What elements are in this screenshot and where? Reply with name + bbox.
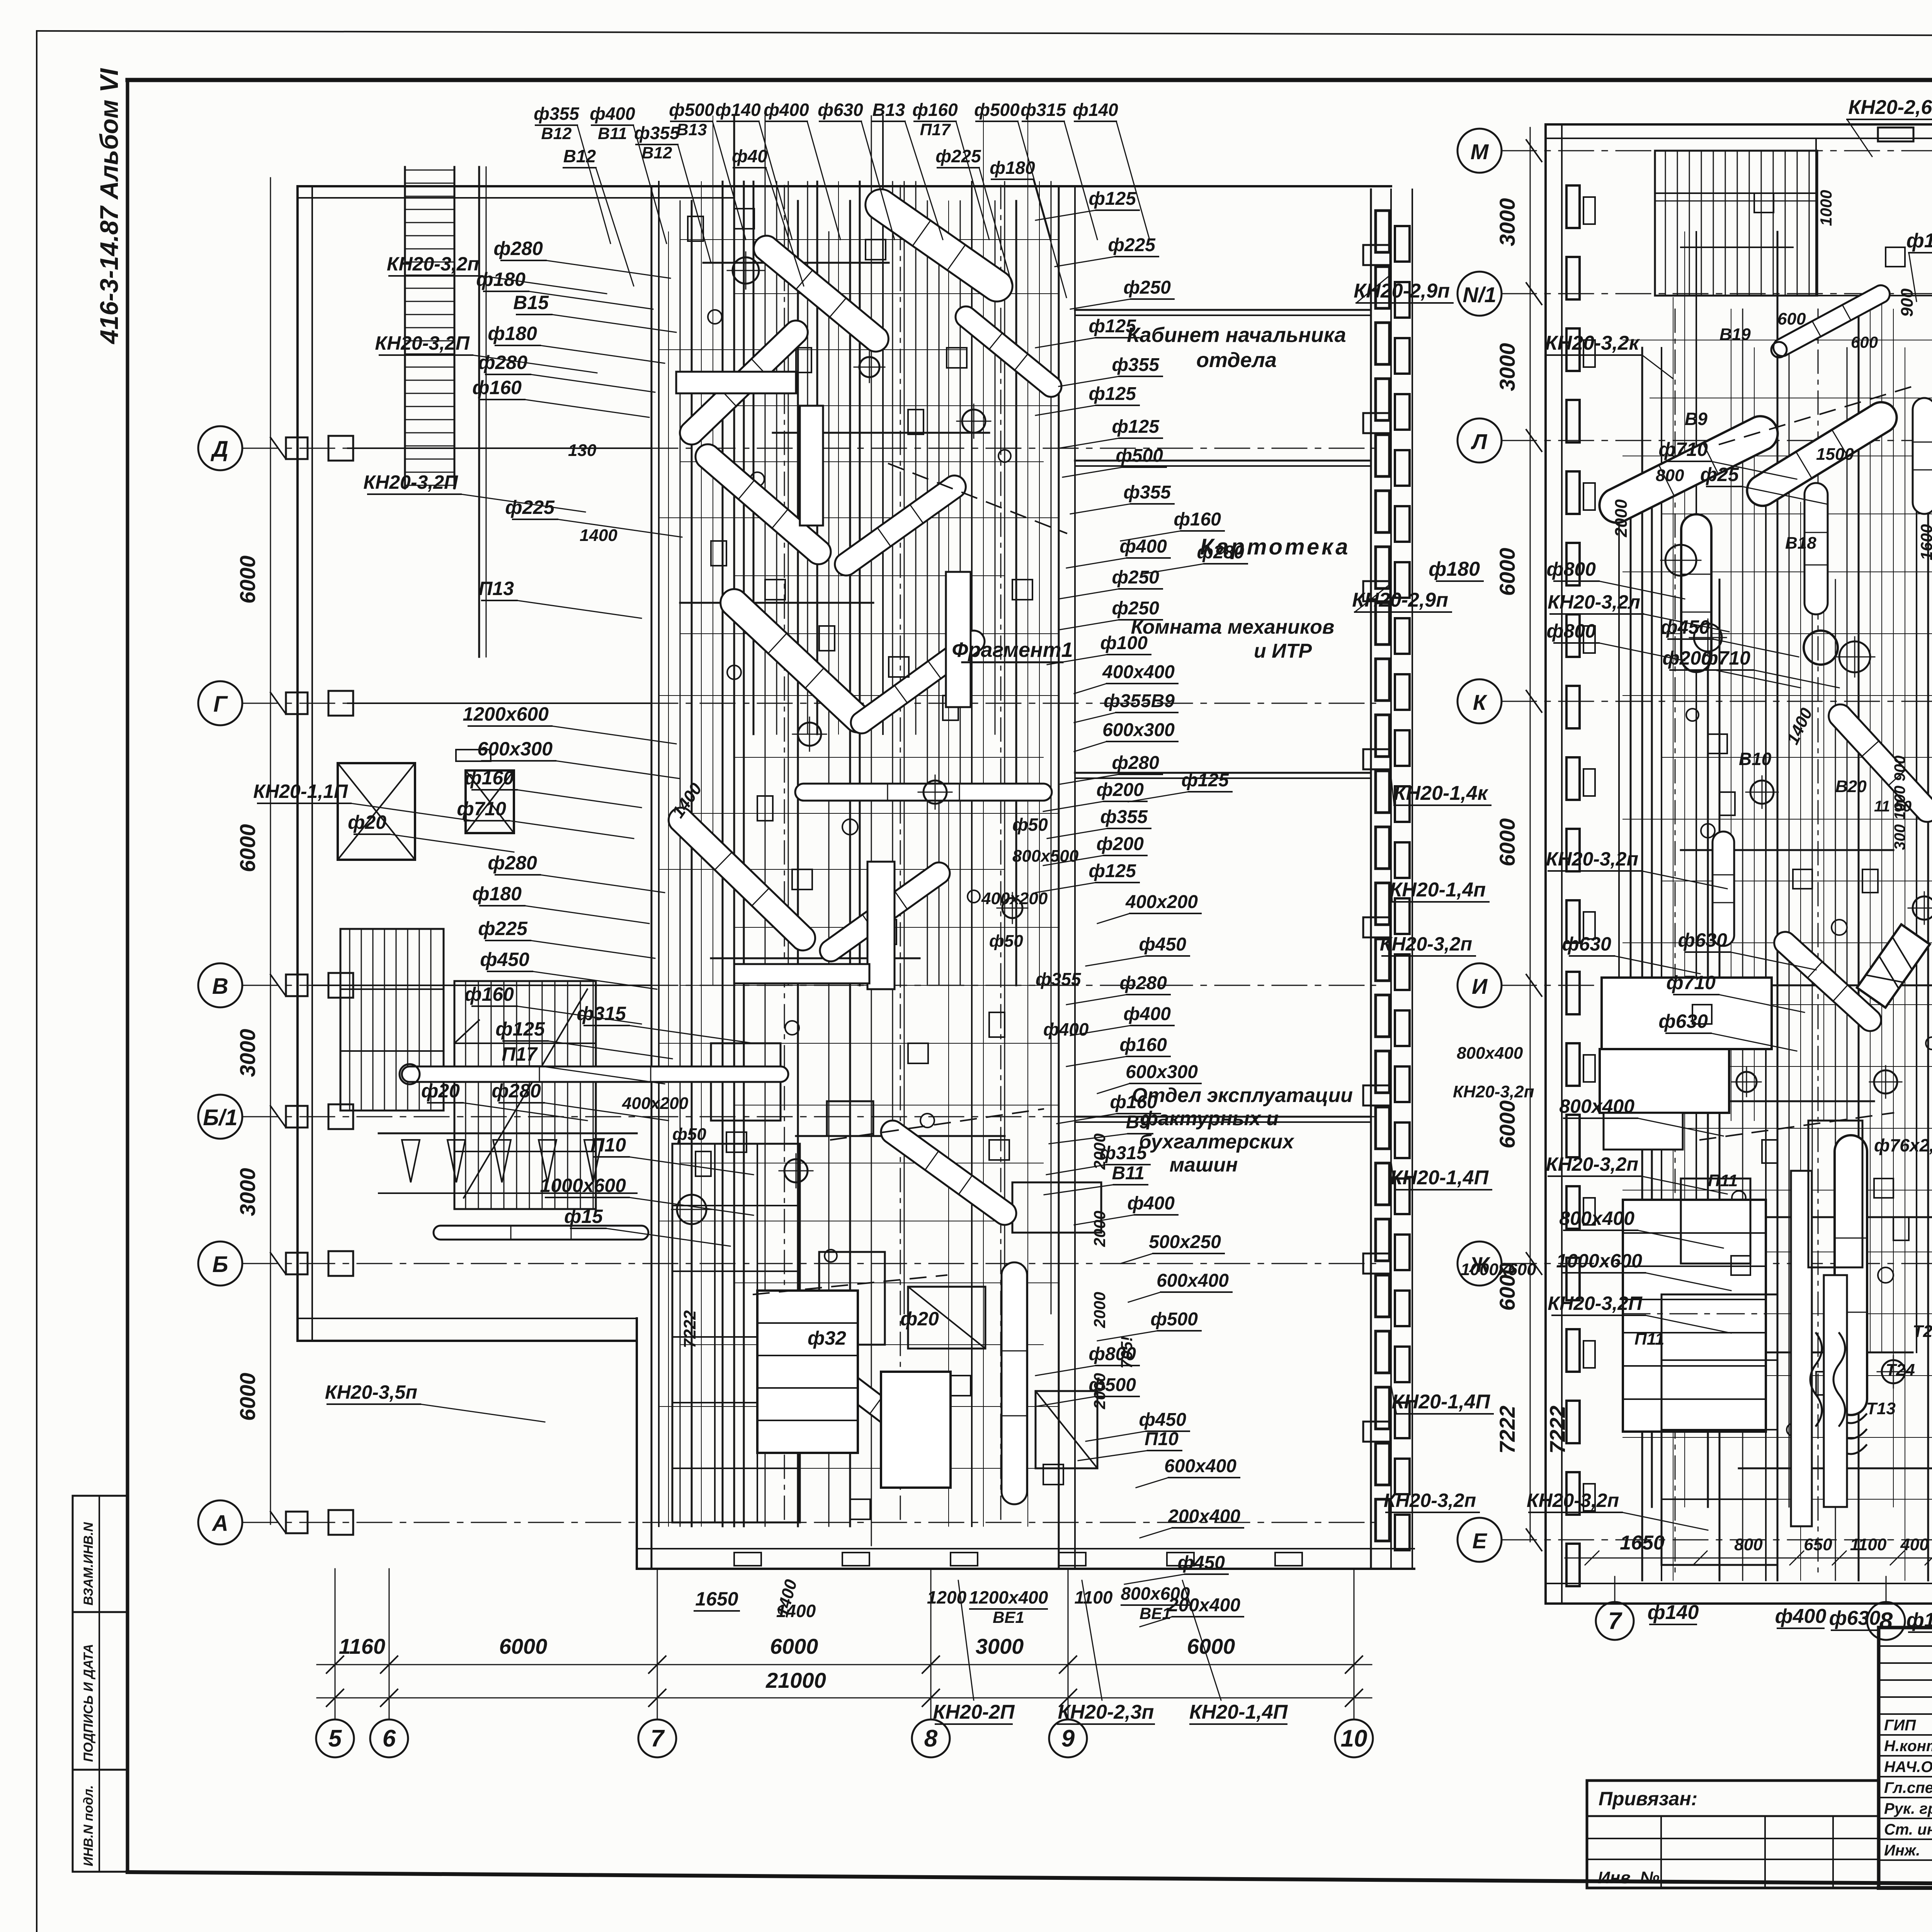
svg-text:КН20-3,2п: КН20-3,2п — [1453, 1082, 1534, 1101]
svg-text:В12: В12 — [541, 124, 572, 143]
svg-text:В13: В13 — [872, 100, 905, 120]
svg-text:КН20-1,4П: КН20-1,4П — [1189, 1701, 1288, 1723]
svg-text:ф630: ф630 — [1678, 929, 1727, 951]
svg-text:800: 800 — [1656, 466, 1684, 485]
svg-text:Б: Б — [212, 1252, 228, 1277]
svg-text:ф450: ф450 — [480, 949, 529, 970]
svg-text:В19: В19 — [1719, 325, 1751, 344]
svg-text:6: 6 — [383, 1725, 396, 1752]
svg-text:отдела: отдела — [1196, 349, 1277, 372]
svg-text:ф225: ф225 — [478, 918, 528, 939]
svg-text:В11: В11 — [1112, 1163, 1145, 1184]
svg-text:ф160: ф160 — [1119, 1035, 1167, 1055]
svg-text:800х400: 800х400 — [1457, 1044, 1523, 1063]
svg-text:КН20-1,4П: КН20-1,4П — [1392, 1391, 1491, 1413]
svg-text:ф225: ф225 — [505, 497, 555, 518]
svg-text:800: 800 — [1734, 1535, 1763, 1554]
svg-text:2000: 2000 — [1090, 1373, 1109, 1409]
svg-text:В10: В10 — [1739, 749, 1772, 769]
svg-text:ф400: ф400 — [1127, 1193, 1175, 1214]
svg-text:ф25: ф25 — [1700, 464, 1739, 485]
svg-text:ф40: ф40 — [732, 146, 767, 166]
svg-text:ф500: ф500 — [1150, 1309, 1198, 1330]
svg-text:21000: 21000 — [765, 1668, 826, 1692]
svg-text:В18: В18 — [1785, 534, 1816, 553]
svg-text:Н.контр.: Н.контр. — [1884, 1738, 1932, 1755]
svg-text:ф280: ф280 — [493, 238, 543, 259]
svg-text:ф20: ф20 — [900, 1308, 939, 1330]
svg-text:ф160: ф160 — [912, 100, 958, 120]
svg-text:2000: 2000 — [1090, 1292, 1109, 1328]
svg-text:ф710: ф710 — [457, 798, 506, 820]
svg-text:1160: 1160 — [339, 1634, 385, 1658]
svg-text:ф450: ф450 — [1660, 616, 1710, 638]
svg-text:ф315: ф315 — [577, 1003, 626, 1024]
svg-text:400х400: 400х400 — [1102, 662, 1175, 682]
svg-text:НАЧ.ОТД.: НАЧ.ОТД. — [1884, 1759, 1932, 1776]
svg-text:ф630: ф630 — [1829, 1607, 1881, 1629]
svg-text:ф280: ф280 — [1112, 753, 1159, 773]
svg-text:П10: П10 — [590, 1134, 626, 1156]
svg-text:А: А — [211, 1511, 228, 1536]
svg-text:6000: 6000 — [499, 1634, 548, 1658]
svg-text:ф400: ф400 — [1119, 536, 1167, 557]
svg-text:КН20-2П: КН20-2П — [933, 1701, 1015, 1723]
svg-text:ф225: ф225 — [935, 146, 981, 166]
svg-text:Фрагмент1: Фрагмент1 — [952, 638, 1073, 662]
svg-text:КН20-2,9п: КН20-2,9п — [1352, 589, 1448, 611]
svg-text:КН20-3,2п: КН20-3,2п — [1527, 1490, 1619, 1511]
svg-text:КН20-2,3п: КН20-2,3п — [1058, 1701, 1154, 1723]
svg-text:Инж.: Инж. — [1884, 1842, 1920, 1859]
svg-text:КН20-1,4к: КН20-1,4к — [1394, 782, 1489, 804]
svg-text:400х200: 400х200 — [622, 1094, 689, 1113]
svg-text:П17: П17 — [920, 121, 951, 139]
svg-text:Е: Е — [1472, 1529, 1487, 1553]
svg-text:900: 900 — [1898, 288, 1917, 317]
svg-text:Л: Л — [1471, 429, 1488, 454]
svg-text:Г: Г — [213, 692, 228, 717]
svg-text:400х200: 400х200 — [981, 889, 1048, 908]
svg-text:ПОДПИСЬ И ДАТА: ПОДПИСЬ И ДАТА — [81, 1644, 96, 1762]
svg-text:фактурных и: фактурных и — [1140, 1107, 1279, 1130]
svg-text:В20: В20 — [1835, 777, 1867, 796]
svg-text:ф125: ф125 — [1088, 384, 1136, 404]
svg-text:6000: 6000 — [1495, 818, 1519, 867]
svg-text:400: 400 — [1900, 1535, 1929, 1554]
svg-text:ф160: ф160 — [1906, 1609, 1932, 1631]
svg-text:1600: 1600 — [1917, 524, 1932, 560]
svg-text:ф500: ф500 — [1116, 446, 1163, 466]
svg-text:ф400: ф400 — [1123, 1004, 1171, 1024]
svg-text:ф200: ф200 — [1096, 834, 1144, 854]
svg-text:ф200: ф200 — [1096, 780, 1144, 800]
svg-text:8: 8 — [924, 1725, 938, 1752]
svg-text:600х400: 600х400 — [1164, 1456, 1236, 1476]
svg-text:ВЕ1: ВЕ1 — [993, 1608, 1024, 1626]
svg-text:2000: 2000 — [1090, 1211, 1109, 1247]
svg-text:3000: 3000 — [1495, 198, 1519, 247]
svg-text:ф125: ф125 — [1088, 189, 1136, 209]
svg-text:ф250: ф250 — [1112, 598, 1159, 619]
svg-text:ф180: ф180 — [990, 158, 1035, 178]
svg-text:800х400: 800х400 — [1559, 1095, 1634, 1117]
svg-text:6000: 6000 — [770, 1634, 818, 1658]
svg-text:130: 130 — [568, 441, 597, 460]
svg-text:ф20: ф20 — [421, 1080, 460, 1102]
svg-text:1500: 1500 — [1816, 445, 1854, 464]
svg-text:9: 9 — [1061, 1725, 1075, 1752]
svg-text:ф32: ф32 — [808, 1327, 846, 1349]
svg-text:ф180: ф180 — [476, 269, 526, 290]
svg-text:ф280: ф280 — [492, 1080, 541, 1102]
svg-text:600х300: 600х300 — [477, 738, 553, 760]
svg-text:ф125: ф125 — [495, 1018, 545, 1040]
svg-text:ф355: ф355 — [1112, 355, 1160, 375]
svg-text:500х250: 500х250 — [1149, 1232, 1221, 1252]
svg-text:ф450: ф450 — [1139, 1410, 1186, 1430]
svg-text:300 1000 900: 300 1000 900 — [1891, 755, 1908, 850]
svg-text:1000х600: 1000х600 — [1461, 1260, 1536, 1279]
svg-text:КН20-3,2п: КН20-3,2п — [1384, 1490, 1476, 1511]
svg-text:1400: 1400 — [580, 526, 617, 545]
svg-text:ф125: ф125 — [1088, 316, 1136, 337]
svg-text:КН20-3,2к: КН20-3,2к — [1545, 332, 1640, 354]
svg-text:КН20-1,1П: КН20-1,1П — [253, 781, 348, 802]
svg-text:ф225: ф225 — [1108, 235, 1156, 255]
svg-text:1100: 1100 — [1075, 1587, 1113, 1607]
svg-text:ф400: ф400 — [1775, 1605, 1827, 1628]
svg-text:5: 5 — [328, 1725, 342, 1752]
svg-text:ф180: ф180 — [1429, 558, 1480, 580]
svg-text:7222: 7222 — [680, 1310, 699, 1348]
svg-text:КН20-3,2л: КН20-3,2л — [1548, 591, 1640, 613]
svg-text:КН20-1,4П: КН20-1,4П — [1390, 1167, 1489, 1189]
svg-text:600: 600 — [1777, 310, 1806, 328]
svg-text:7: 7 — [1608, 1608, 1622, 1634]
svg-text:В: В — [212, 974, 228, 999]
svg-text:П11: П11 — [1708, 1171, 1738, 1190]
svg-text:П17: П17 — [502, 1043, 538, 1065]
svg-text:3000: 3000 — [235, 1168, 260, 1216]
svg-text:600х400: 600х400 — [1156, 1270, 1229, 1291]
svg-text:ф50: ф50 — [672, 1125, 706, 1144]
svg-text:ф710: ф710 — [1701, 647, 1750, 669]
svg-text:М: М — [1471, 139, 1489, 164]
svg-text:ф160: ф160 — [472, 377, 522, 398]
svg-text:ф800: ф800 — [1546, 620, 1596, 642]
svg-text:6000: 6000 — [235, 1373, 260, 1421]
svg-text:В13: В13 — [677, 121, 707, 139]
svg-text:ф180: ф180 — [1906, 230, 1932, 252]
svg-text:В12: В12 — [563, 146, 596, 166]
svg-text:КН20-3,2П: КН20-3,2П — [1548, 1293, 1643, 1314]
svg-text:1200х600: 1200х600 — [463, 703, 549, 725]
svg-text:ф355В9: ф355В9 — [1104, 691, 1175, 711]
svg-text:П13: П13 — [478, 578, 514, 599]
svg-text:Инв. №: Инв. № — [1598, 1868, 1660, 1887]
svg-text:КН20-2,6к: КН20-2,6к — [1848, 96, 1932, 119]
svg-text:ф355: ф355 — [1036, 969, 1082, 989]
svg-text:Б/1: Б/1 — [203, 1105, 237, 1130]
svg-text:и ИТР: и ИТР — [1254, 640, 1312, 662]
svg-text:600х300: 600х300 — [1126, 1062, 1198, 1082]
svg-text:Т13: Т13 — [1866, 1399, 1896, 1418]
svg-text:Рук. гр.: Рук. гр. — [1884, 1800, 1932, 1817]
svg-text:6000: 6000 — [235, 556, 260, 604]
svg-text:ф160: ф160 — [464, 983, 514, 1005]
svg-text:200х400: 200х400 — [1168, 1506, 1240, 1527]
svg-text:600х300: 600х300 — [1102, 720, 1175, 740]
svg-text:ф76х2,8: ф76х2,8 — [1874, 1135, 1932, 1155]
svg-text:ф710: ф710 — [1658, 439, 1708, 460]
svg-text:КН20-3,2п: КН20-3,2п — [387, 253, 479, 275]
svg-text:10: 10 — [1341, 1725, 1367, 1752]
svg-text:ф180: ф180 — [472, 883, 522, 905]
svg-text:ф250: ф250 — [1123, 277, 1171, 298]
svg-text:П10: П10 — [1145, 1429, 1179, 1449]
svg-text:КН20-3,5п: КН20-3,5п — [325, 1381, 417, 1403]
svg-text:800х600: 800х600 — [1121, 1583, 1190, 1604]
svg-text:ГИП: ГИП — [1884, 1717, 1916, 1734]
svg-text:7222: 7222 — [1495, 1406, 1519, 1454]
svg-text:6000: 6000 — [1495, 548, 1519, 596]
svg-text:Кабинет начальника: Кабинет начальника — [1127, 323, 1346, 347]
svg-text:Т24: Т24 — [1886, 1361, 1915, 1379]
svg-text:ф400: ф400 — [1043, 1019, 1089, 1039]
svg-text:ф280: ф280 — [488, 852, 537, 874]
svg-text:705!: 705! — [1117, 1336, 1136, 1369]
svg-text:3000: 3000 — [1495, 343, 1519, 391]
svg-text:1200х400: 1200х400 — [969, 1587, 1048, 1607]
svg-text:В12: В12 — [642, 144, 672, 162]
svg-text:К: К — [1473, 690, 1488, 714]
svg-text:ф315: ф315 — [1020, 100, 1066, 120]
svg-text:800х400: 800х400 — [1559, 1207, 1634, 1229]
svg-text:ф355: ф355 — [534, 104, 580, 124]
svg-text:ф500: ф500 — [669, 100, 714, 120]
svg-text:ф630: ф630 — [818, 100, 863, 120]
svg-text:416-3-14.87 Альбом VI: 416-3-14.87 Альбом VI — [95, 68, 123, 345]
svg-text:600: 600 — [1851, 333, 1878, 351]
svg-text:ВЕ1: ВЕ1 — [1139, 1604, 1171, 1622]
svg-text:400х200: 400х200 — [1125, 892, 1198, 912]
svg-text:2000: 2000 — [1612, 499, 1631, 537]
svg-text:2000: 2000 — [1090, 1133, 1109, 1170]
svg-text:Гл.спец.: Гл.спец. — [1884, 1779, 1932, 1796]
svg-text:ф280: ф280 — [1119, 973, 1167, 993]
svg-text:КН20-3,2п: КН20-3,2п — [1546, 848, 1638, 870]
svg-text:ф160: ф160 — [1173, 509, 1221, 530]
svg-text:ф355: ф355 — [634, 123, 680, 143]
svg-text:6000: 6000 — [1187, 1634, 1235, 1658]
svg-text:ф800: ф800 — [1546, 558, 1596, 580]
svg-text:машин: машин — [1170, 1154, 1238, 1176]
svg-text:ф400: ф400 — [764, 100, 809, 120]
svg-text:Т25: Т25 — [1913, 1322, 1932, 1341]
svg-text:ф500: ф500 — [974, 100, 1020, 120]
svg-text:В11: В11 — [598, 124, 627, 143]
svg-text:1000х600: 1000х600 — [1556, 1250, 1643, 1272]
svg-text:ф400: ф400 — [590, 104, 635, 124]
svg-text:В9: В9 — [1126, 1112, 1150, 1133]
svg-text:3000: 3000 — [235, 1029, 260, 1077]
svg-text:ф180: ф180 — [488, 323, 537, 344]
svg-text:ф125: ф125 — [1181, 770, 1229, 791]
svg-text:6000: 6000 — [1495, 1100, 1519, 1149]
svg-text:Д: Д — [210, 437, 228, 462]
svg-text:КН20-3,2п: КН20-3,2п — [1380, 933, 1472, 955]
svg-text:Отдел эксплуатации: Отдел эксплуатации — [1132, 1084, 1353, 1107]
svg-text:ф280: ф280 — [478, 352, 527, 373]
svg-text:ф140: ф140 — [1073, 100, 1118, 120]
svg-text:1000: 1000 — [1817, 190, 1835, 226]
svg-text:6000: 6000 — [235, 824, 260, 872]
svg-text:КН20-3,2п: КН20-3,2п — [1546, 1153, 1638, 1175]
svg-text:ф125: ф125 — [1088, 861, 1136, 881]
svg-text:ф140: ф140 — [715, 100, 761, 120]
svg-text:П11: П11 — [1634, 1330, 1664, 1349]
svg-text:800х500: 800х500 — [1012, 847, 1079, 866]
svg-text:ф15: ф15 — [564, 1206, 603, 1227]
svg-text:ф630: ф630 — [1658, 1010, 1708, 1032]
svg-text:ф160: ф160 — [1110, 1092, 1157, 1112]
svg-text:В15: В15 — [513, 292, 549, 313]
svg-text:N/1: N/1 — [1463, 282, 1496, 307]
svg-text:ф125: ф125 — [1112, 417, 1160, 437]
svg-text:В9: В9 — [1685, 409, 1708, 429]
svg-text:Привязан:: Привязан: — [1599, 1788, 1697, 1810]
svg-text:бухгалтерских: бухгалтерских — [1139, 1131, 1295, 1153]
svg-text:И: И — [1472, 974, 1488, 998]
svg-text:ф630: ф630 — [1562, 933, 1611, 955]
svg-text:1650: 1650 — [695, 1588, 738, 1610]
svg-text:ф50: ф50 — [989, 932, 1023, 951]
svg-text:ф280: ф280 — [1197, 542, 1244, 563]
svg-text:ф50: ф50 — [1012, 815, 1048, 835]
svg-text:ф20: ф20 — [348, 811, 386, 833]
svg-text:ф450: ф450 — [1139, 934, 1186, 955]
svg-text:ф250: ф250 — [1112, 567, 1159, 588]
svg-text:КН20-2,9п: КН20-2,9п — [1354, 280, 1450, 302]
svg-text:ИНВ.N подл.: ИНВ.N подл. — [81, 1785, 96, 1866]
svg-text:8: 8 — [1879, 1608, 1893, 1634]
svg-text:КН20-3,2П: КН20-3,2П — [375, 332, 470, 354]
svg-text:ф450: ф450 — [1177, 1553, 1225, 1573]
svg-text:КН20-3,2П: КН20-3,2П — [363, 471, 458, 493]
svg-text:ф355: ф355 — [1123, 482, 1171, 503]
svg-text:ф100: ф100 — [1100, 633, 1148, 653]
svg-text:1100: 1100 — [1850, 1535, 1887, 1554]
svg-text:ф160: ф160 — [464, 767, 514, 789]
svg-text:ВЗАМ.ИНВ.N: ВЗАМ.ИНВ.N — [81, 1522, 96, 1605]
svg-text:3000: 3000 — [976, 1634, 1024, 1658]
svg-text:ф710: ф710 — [1666, 972, 1716, 993]
svg-text:КН20-1,4п: КН20-1,4п — [1389, 879, 1486, 901]
svg-text:Ст. инж.: Ст. инж. — [1884, 1821, 1932, 1838]
svg-text:7: 7 — [651, 1725, 665, 1752]
svg-text:1000х600: 1000х600 — [540, 1175, 626, 1196]
svg-text:ф355: ф355 — [1100, 807, 1148, 827]
